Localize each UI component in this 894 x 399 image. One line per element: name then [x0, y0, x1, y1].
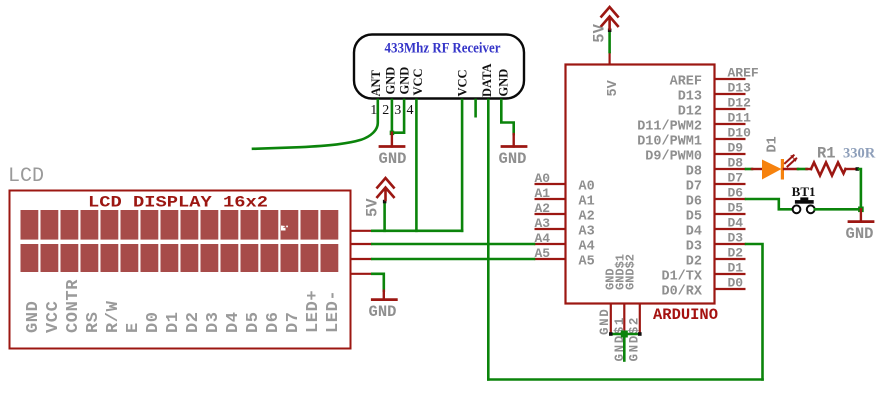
svg-text:2: 2 [382, 103, 389, 118]
pin D6 stub [715, 198, 747, 200]
junction at arduino gnd bus [621, 331, 628, 338]
svg-text:D8: D8 [728, 156, 744, 171]
svg-text:D2: D2 [728, 246, 744, 261]
svg-text:1: 1 [370, 103, 377, 118]
LCD right pin stub row4 [351, 273, 373, 275]
svg-text:D12: D12 [728, 96, 752, 111]
svg-text:A0: A0 [579, 180, 595, 195]
svg-text:A0: A0 [535, 171, 551, 186]
svg-text:A3: A3 [535, 216, 551, 231]
LED D1 emission arrows [785, 155, 796, 166]
LCD character cells row 2 [21, 244, 339, 272]
pin D13 stub [715, 93, 746, 95]
svg-text:D2: D2 [184, 311, 203, 333]
svg-text:330R: 330R [843, 146, 876, 162]
svg-text:A3: A3 [579, 225, 595, 240]
svg-text:LCD DISPLAY 16x2: LCD DISPLAY 16x2 [88, 194, 268, 212]
svg-text:LCD: LCD [8, 165, 44, 188]
svg-text:D1: D1 [164, 311, 183, 333]
wire antenna curve from ANT pin [253, 100, 378, 149]
svg-text:LED-: LED- [324, 290, 343, 333]
pin 5V top stub [608, 52, 610, 65]
LED D1 triangle [762, 160, 782, 180]
svg-text:A1: A1 [535, 186, 551, 201]
svg-text:GND: GND [398, 67, 412, 95]
svg-text:GND: GND [497, 69, 511, 97]
svg-text:A5: A5 [579, 255, 595, 270]
svg-text:D2: D2 [686, 255, 702, 270]
svg-text:D8: D8 [686, 165, 702, 180]
svg-text:AREF: AREF [728, 66, 759, 81]
LED cathode pin wire [784, 168, 798, 170]
button BT1 contact circle right [807, 205, 815, 213]
wire LCD row1 horizontal [372, 230, 462, 233]
supply 5V symbol above Arduino [601, 7, 617, 29]
pin end dot at R1 right [856, 167, 860, 171]
wire arduino gnd bus bar [611, 333, 640, 336]
svg-text:D7: D7 [284, 311, 303, 333]
svg-text:VCC: VCC [411, 68, 425, 95]
resistor R1 zigzag [811, 163, 846, 176]
svg-text:GND$2: GND$2 [624, 254, 638, 290]
svg-text:D12: D12 [678, 105, 702, 120]
svg-text:E: E [124, 322, 143, 333]
button BT1 actuator bar [795, 200, 814, 204]
svg-text:D1/TX: D1/TX [661, 270, 702, 285]
pin D11 stub [715, 123, 746, 125]
LCD right pin stub row3 [351, 258, 373, 260]
svg-text:D0: D0 [728, 276, 744, 291]
svg-text:DATA: DATA [480, 63, 494, 97]
svg-text:D3: D3 [204, 311, 223, 333]
ground GND4 bar [849, 220, 873, 223]
pin A4 stub [534, 243, 566, 245]
svg-text:D1: D1 [766, 136, 781, 152]
Arduino body outline [566, 65, 715, 304]
svg-text:D7: D7 [728, 171, 744, 186]
svg-text:D6: D6 [728, 186, 744, 201]
wire DATA drop long vertical [487, 100, 490, 380]
pin A3 stub [535, 228, 566, 230]
wire GND pin2 drop [391, 100, 394, 133]
svg-text:D4: D4 [728, 216, 744, 231]
wire GND right pin drop [501, 100, 513, 134]
svg-text:D0/RX: D0/RX [661, 285, 702, 300]
wire D6 elbow to button [746, 199, 792, 209]
LCD body outline [10, 191, 351, 349]
svg-text:3: 3 [394, 103, 401, 118]
wire arduino gnd dangling drop [623, 334, 626, 361]
svg-text:433Mhz RF Receiver: 433Mhz RF Receiver [385, 41, 502, 57]
unconnected pin stub [474, 100, 477, 116]
svg-text:R1: R1 [817, 145, 836, 163]
svg-text:D9: D9 [728, 141, 744, 156]
svg-text:LED+: LED+ [304, 290, 323, 333]
pin D4 stub [715, 228, 746, 230]
svg-text:D0: D0 [144, 311, 163, 333]
LED D1 anode pin [752, 168, 762, 170]
svg-text:A4: A4 [535, 231, 551, 246]
svg-text:GND: GND [24, 301, 43, 333]
svg-text:5V: 5V [364, 198, 382, 217]
svg-text:D5: D5 [244, 311, 263, 333]
pin D0 stub [715, 288, 746, 290]
svg-text:D7: D7 [686, 180, 702, 195]
wire 5V above Arduino [608, 32, 611, 53]
svg-text:D5: D5 [686, 210, 702, 225]
wire GND pin3 drop and elbow [392, 100, 404, 133]
LED D1 cathode bar [781, 159, 784, 180]
pin A1 stub [535, 198, 566, 200]
LED resistor and button circuit [746, 136, 876, 243]
ground GND3 bar [372, 298, 396, 301]
pin D1 stub [715, 273, 746, 275]
svg-text:GND: GND [384, 67, 398, 95]
wire D8 to LED [746, 168, 752, 171]
pin D7 stub [715, 183, 746, 185]
svg-text:5V: 5V [606, 79, 621, 96]
ground GND4 stem [860, 209, 862, 221]
wire LCD row4 elbow down [372, 274, 384, 291]
pin A2 stub [535, 213, 566, 215]
pin end dot gnd stub1 [609, 332, 613, 336]
svg-text:D6: D6 [686, 195, 702, 210]
pin end dot 5V above Arduino [608, 29, 612, 33]
svg-text:A1: A1 [579, 195, 595, 210]
svg-text:BT1: BT1 [792, 184, 816, 199]
wire VCC right drop to LCD row1 [461, 100, 464, 231]
LCD right pin stub row1 [351, 230, 373, 232]
svg-text:5V: 5V [591, 23, 609, 42]
svg-text:D10: D10 [728, 126, 752, 141]
pin GND$2 bottom stub 3 [639, 304, 641, 334]
ground GND1 bar [380, 145, 404, 148]
junction at button and R1 [858, 207, 864, 213]
cursor glyph in cell 14 [281, 226, 286, 231]
supply 5V symbol near LCD [377, 178, 393, 200]
pin end dot gnd stub3 [638, 332, 642, 336]
wire VCC pin4 drop to LCD row1 [415, 100, 418, 231]
button BT1 contact circle left [793, 205, 801, 213]
pin A5 stub [534, 258, 566, 260]
svg-text:A2: A2 [579, 210, 595, 225]
ground GND2 stem [513, 134, 515, 146]
svg-text:VCC: VCC [44, 301, 63, 333]
wires and supply symbols [253, 7, 763, 380]
pin A0 stub [535, 183, 566, 185]
RF receiver module [354, 35, 524, 119]
pin D5 stub [715, 213, 746, 215]
wire LED to R1 [798, 168, 807, 171]
svg-text:A4: A4 [579, 240, 595, 255]
Arduino module U1 [534, 52, 759, 362]
svg-text:D3: D3 [728, 231, 744, 246]
svg-text:D11/PWM2: D11/PWM2 [637, 120, 702, 135]
junction at receiver GND pins [390, 131, 395, 136]
pin AREF stub [715, 78, 746, 80]
wire button to junction [815, 208, 861, 211]
svg-text:RS: RS [84, 311, 103, 333]
svg-text:D13: D13 [678, 90, 702, 105]
LCD character cells row 1 [21, 210, 339, 240]
pin D10 stub [715, 138, 746, 140]
wire R1 down to junction [859, 169, 861, 209]
svg-text:ARDUINO: ARDUINO [653, 306, 718, 324]
wire LCD row2 to A4 [372, 243, 534, 246]
svg-text:D10/PWM1: D10/PWM1 [637, 135, 702, 150]
svg-text:D13: D13 [728, 81, 752, 96]
svg-text:R/W: R/W [104, 300, 123, 333]
svg-text:GND: GND [598, 308, 612, 335]
svg-text:D5: D5 [728, 201, 744, 216]
pin GND bottom stub 1 [610, 304, 612, 334]
svg-text:CONTR: CONTR [64, 279, 83, 333]
svg-text:D1: D1 [728, 261, 744, 276]
pin D2 stub [715, 258, 746, 260]
pin D9 stub [715, 153, 746, 155]
svg-text:GND: GND [379, 150, 407, 168]
svg-text:A2: A2 [535, 201, 551, 216]
pin D3 stub [715, 243, 747, 245]
svg-text:A5: A5 [535, 246, 551, 261]
button BT1 actuator stem [800, 197, 808, 200]
ground GND1 stem [391, 133, 393, 147]
svg-text:D6: D6 [264, 311, 283, 333]
pin end dot 5V near LCD [383, 200, 387, 204]
svg-text:D4: D4 [686, 225, 702, 240]
wire DATA right riser to D3 [746, 244, 763, 380]
receiver body outline [354, 35, 524, 99]
pin D12 stub [715, 108, 746, 110]
wire riser to 5V near LCD [383, 202, 386, 231]
ground GND3 stem [383, 291, 385, 300]
svg-text:D9/PWM0: D9/PWM0 [645, 150, 702, 165]
ground GND2 bar [502, 145, 526, 148]
resistor R1 right pin [846, 168, 858, 170]
svg-text:GND: GND [846, 225, 874, 243]
LCD right pin stub row2 [351, 243, 373, 245]
svg-text:GND$2: GND$2 [628, 316, 642, 362]
LCD module U2 [8, 165, 372, 349]
pin GND$1 bottom stub 2 [623, 304, 625, 334]
pin D8 stub [715, 168, 747, 170]
svg-text:ANT: ANT [369, 69, 383, 96]
svg-text:VCC: VCC [456, 69, 470, 96]
svg-text:D4: D4 [224, 311, 243, 333]
wire LCD row3 to A5 [372, 258, 534, 261]
pin end dot gnd stub2 [623, 332, 627, 336]
svg-text:4: 4 [407, 103, 414, 118]
wire DATA bottom horizontal [488, 378, 762, 381]
svg-text:GND: GND [369, 303, 397, 321]
svg-text:D3: D3 [686, 240, 702, 255]
svg-text:GND: GND [499, 150, 527, 168]
svg-text:AREF: AREF [670, 75, 702, 90]
resistor R1 left pin [807, 168, 812, 170]
svg-text:D11: D11 [728, 111, 752, 126]
